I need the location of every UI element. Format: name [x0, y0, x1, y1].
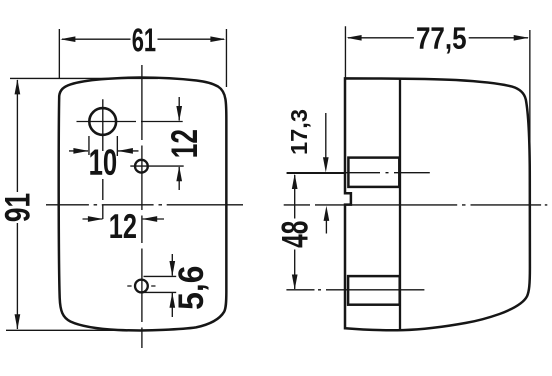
stud 1 (upper): [348, 158, 399, 187]
svg-text:48: 48: [274, 221, 315, 248]
front view body outline: [59, 78, 227, 331]
side view body outline: [345, 78, 530, 330]
side view lens/housing boundary line: [399, 78, 401, 330]
dim 17,3 extension line at stud centerline height: [287, 172, 345, 174]
bottom hole horizontal dashes: [127, 285, 155, 287]
dim 12 horizontal arrows: [83, 218, 103, 220]
dim 91 line: [16, 80, 18, 329]
dim 48 line and arrows: [294, 175, 296, 289]
dim 10 extension lines: [89, 136, 117, 156]
dim 5,6 extension lines: [144, 276, 177, 292]
front view vertical centerline: [141, 65, 143, 348]
dim 91 extension lines: [6, 78, 158, 330]
dim 61 line: [62, 38, 224, 40]
dim 10 arrow right: [118, 150, 139, 152]
bottom hole D5,6: [135, 280, 148, 293]
svg-text:91: 91: [0, 193, 37, 222]
svg-text:77,5: 77,5: [416, 22, 467, 57]
dim 91 arrowheads: [15, 79, 21, 329]
dim 12 vertical arrows: [178, 97, 180, 121]
svg-text:12: 12: [163, 129, 205, 158]
middle hole horizontal centerline: [130, 165, 183, 167]
svg-text:5,6: 5,6: [172, 266, 211, 310]
big circle horizontal centerline: [77, 121, 183, 123]
svg-text:61: 61: [132, 22, 156, 59]
stud 2 (lower): [348, 276, 400, 305]
svg-text:12: 12: [109, 208, 137, 246]
stud 2 centerline: [286, 289, 424, 291]
big circle vertical centerline: [102, 99, 104, 219]
hole D10 big circle: [89, 108, 116, 135]
stud 1 centerline: [287, 172, 430, 174]
middle hole: [135, 160, 148, 173]
dim 10 arrow left: [69, 150, 88, 152]
svg-text:10: 10: [89, 141, 118, 183]
dim 77,5 line: [348, 37, 528, 39]
front view horizontal centerline: [46, 204, 243, 206]
svg-text:17,3: 17,3: [286, 109, 312, 155]
dim 61 extension lines: [59, 29, 226, 87]
dim 77,5 arrowheads: [346, 35, 529, 41]
dim 77,5 extension lines: [345, 26, 529, 168]
dim 5,6 arrows: [171, 254, 173, 276]
dim 17,3 leader and arrows: [325, 113, 327, 161]
dim 61 arrowheads: [60, 36, 225, 42]
side view horizontal centerline: [284, 204, 548, 206]
